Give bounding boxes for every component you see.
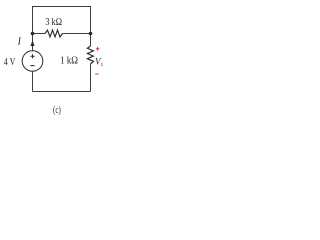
voltage source plus sign	[30, 54, 34, 58]
node B junction dot	[89, 32, 93, 36]
wire from source bottom to bottom-left corner	[32, 71, 34, 91]
resistor 3 kOhm zigzag	[45, 30, 63, 37]
svg-text:3 kΩ: 3 kΩ	[45, 16, 62, 28]
current arrow I head	[31, 40, 35, 46]
wire right vertical from top-right corner down to 1k resistor	[90, 6, 92, 46]
resistor 1 kOhm zigzag vertical	[87, 46, 93, 64]
wire middle from node A to 3k resistor	[33, 33, 46, 35]
svg-text:V1: V1	[95, 57, 104, 69]
wire middle from 3k resistor to node B	[63, 33, 91, 35]
voltage source minus sign	[31, 65, 35, 67]
svg-text:4 V: 4 V	[4, 56, 16, 68]
node A junction dot	[31, 32, 35, 36]
wire bottom	[33, 91, 91, 93]
wire from 1k resistor to bottom-right corner	[90, 64, 92, 92]
wire top from node A to node B	[33, 6, 91, 8]
wire left vertical from top-left corner down to source	[32, 6, 34, 51]
V1 polarity minus sign (red)	[95, 73, 98, 75]
voltage source V circle	[22, 51, 43, 72]
V1 polarity plus sign (red)	[96, 47, 100, 51]
svg-text:I: I	[17, 37, 22, 48]
svg-text:1 kΩ: 1 kΩ	[60, 55, 78, 67]
svg-text:(c): (c)	[53, 104, 61, 116]
